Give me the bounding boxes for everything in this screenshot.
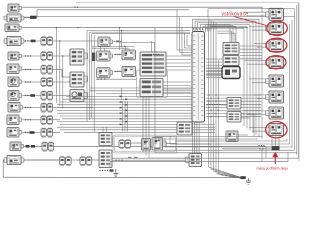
relay K2 bbox=[41, 52, 53, 61]
red arrow to X1 bbox=[272, 152, 278, 165]
corner wires above C1 bbox=[120, 41, 155, 52]
block pair RB5 bbox=[227, 98, 241, 110]
module M2 bbox=[70, 90, 88, 102]
wire y79 with dots bbox=[96, 79, 137, 80]
module M4 bbox=[99, 150, 112, 168]
module M0 bbox=[70, 49, 88, 65]
module M3 bbox=[99, 133, 112, 146]
wire net at y9.8 bbox=[37, 9, 189, 11]
wire from K6 bbox=[53, 119, 60, 121]
routing loop 5 bbox=[175, 139, 287, 141]
drops to modules row bbox=[120, 28, 122, 50]
wires left of RB5 bbox=[206, 101, 224, 105]
bottom converge verticals bbox=[262, 147, 266, 162]
wire net at y16.5 bbox=[37, 16, 295, 18]
sensor block B7 bbox=[8, 77, 22, 87]
wire from B11 bbox=[22, 131, 41, 134]
wire row y160 segments bbox=[24, 159, 99, 161]
injector INJ2 bbox=[266, 40, 284, 52]
module M5 bbox=[98, 37, 113, 47]
sensor block B8 bbox=[8, 91, 22, 101]
verticals below C2 bbox=[143, 97, 149, 159]
wire M4 to D2 bbox=[112, 157, 185, 161]
module A1 bbox=[97, 51, 113, 61]
dots above ECU bbox=[193, 28, 203, 29]
wire from B3 bbox=[22, 27, 248, 28]
routing loop 4 bbox=[170, 24, 290, 144]
connector block B4 bbox=[4, 37, 24, 46]
extra top bundle lines bbox=[206, 25, 237, 43]
relay box outline bbox=[113, 135, 177, 153]
routing loop bottom lines bbox=[110, 4, 299, 168]
wire from K3b to M1 bbox=[53, 81, 70, 83]
wire from B2 with inline fuse F1 bbox=[24, 10, 37, 19]
ECU top exit wires bbox=[193, 19, 260, 31]
horizontal wire bus left of ECU bbox=[57, 88, 215, 132]
wire from B6 bbox=[22, 69, 41, 70]
second wire into X1 bbox=[222, 148, 271, 150]
relay K7 bbox=[41, 128, 53, 137]
connector block B5 bbox=[8, 52, 22, 60]
wire K1 to module M5 bbox=[53, 40, 98, 42]
relay K4 bbox=[41, 91, 53, 100]
corner wire y8.6 bbox=[208, 9, 295, 18]
block E2 inside box bbox=[152, 138, 163, 151]
feed wires above modules bbox=[92, 46, 135, 51]
wire from K2 bbox=[53, 55, 70, 57]
relay K1 bbox=[41, 37, 53, 46]
sensor block B9 bbox=[8, 103, 23, 113]
wires right of RB column bbox=[240, 46, 262, 59]
circle icon in B8 bbox=[11, 92, 15, 96]
feeder staircase verticals bbox=[244, 14, 262, 139]
relay pair K9 bbox=[60, 156, 72, 165]
long vertical from B3 net bbox=[56, 27, 57, 103]
wires C1 to ECU bbox=[166, 56, 191, 70]
wire from B13 right bbox=[24, 159, 84, 161]
red ellipse around S1 bbox=[266, 122, 287, 138]
wire from B1 bbox=[22, 7, 265, 13]
dots right of C1 bbox=[150, 54, 159, 55]
connector D2 bbox=[185, 154, 201, 167]
wires RB6 RB7 to feeders bbox=[221, 101, 254, 137]
long vertical from K1 net bbox=[59, 40, 60, 106]
corner wires to RB2 top bbox=[217, 31, 235, 43]
wires out of relay box bbox=[131, 141, 215, 144]
wires C2 to ECU bbox=[163, 82, 191, 93]
wire from K7 bbox=[53, 132, 60, 134]
circle icon in B7 bbox=[11, 79, 15, 83]
connector block B2 bbox=[4, 14, 24, 22]
outer routing loop bbox=[160, 9, 295, 151]
injector INJ1 bbox=[266, 23, 284, 35]
wire from K4 to module M2 bbox=[53, 95, 70, 97]
node dot on B13 drop bbox=[2, 159, 5, 161]
wire from M5 bbox=[114, 41, 123, 43]
ground symbol G1 bbox=[113, 169, 118, 177]
red leader line to INJ1 bbox=[234, 17, 267, 26]
wire from K5 bbox=[53, 107, 93, 109]
outline box around C2 bbox=[137, 70, 168, 98]
injector INJ3 bbox=[266, 57, 284, 69]
wire from B4 with dots bbox=[24, 40, 41, 43]
routing loop 2 bbox=[155, 5, 297, 155]
module B1 bbox=[122, 50, 135, 60]
component N2 bbox=[266, 91, 284, 103]
page border top bbox=[76, 2, 299, 162]
bus crossing verticals bbox=[123, 101, 128, 132]
connector block B12 bbox=[10, 142, 24, 151]
oil pressure sensor S1 bbox=[266, 124, 284, 136]
ground symbol G3 bbox=[246, 178, 251, 184]
connector block B3 bbox=[5, 24, 22, 32]
wire from B7 bbox=[22, 81, 41, 82]
block E1 inside box bbox=[142, 139, 151, 151]
red ellipse around INJ2 bbox=[266, 38, 287, 52]
bus corner horizontals bbox=[87, 30, 190, 34]
diagonal wires to mass junction X2 bbox=[209, 167, 241, 178]
wires from S1 down to X1 bbox=[272, 136, 279, 146]
relay K3 bbox=[41, 65, 53, 74]
oil-filter mass junction X1 bbox=[266, 146, 280, 151]
verticals right of ECU bbox=[209, 19, 219, 175]
dark component on bus bbox=[92, 53, 95, 62]
connector block B11 bbox=[7, 128, 22, 138]
tab of E2 bbox=[163, 141, 167, 147]
wire A1 to B1 bbox=[114, 54, 122, 55]
long wire y136 bbox=[155, 136, 262, 138]
ECU right lower exit wires bbox=[206, 95, 261, 117]
block pair RB6 bbox=[227, 112, 241, 123]
routing loop 3 bbox=[165, 20, 292, 147]
connector D1 bbox=[177, 122, 192, 135]
injector feed stubs bbox=[244, 12, 266, 131]
red label masa po filtrem oleju bbox=[257, 166, 288, 170]
connector RB2 bbox=[223, 43, 239, 55]
relay K8 bbox=[42, 142, 54, 151]
red ellipse around INJ3 bbox=[266, 56, 286, 69]
connector block B6 bbox=[7, 64, 22, 74]
relay module R1 bbox=[266, 8, 284, 20]
relay pair K10 bbox=[80, 156, 92, 165]
dots below M4 bbox=[99, 169, 113, 171]
connector C1 bbox=[140, 52, 166, 76]
long wire y139 bbox=[158, 138, 258, 140]
wire above M3 bbox=[103, 127, 107, 132]
wire from K3 bbox=[53, 70, 70, 78]
ECU left drop verticals bbox=[177, 10, 192, 55]
tick marks right of ECU bbox=[208, 94, 218, 117]
wire from B5 bbox=[22, 55, 41, 56]
ECU right exit wires bbox=[206, 59, 222, 78]
dots along diagonals bbox=[221, 174, 230, 177]
wire A2 to B2 bbox=[114, 71, 122, 72]
red label vstrikovace bbox=[222, 11, 249, 17]
component N1 bbox=[266, 75, 284, 87]
wire from B12 with fuse F2 bbox=[24, 145, 42, 148]
wire from B13 down-left and along bottom bbox=[3, 160, 240, 178]
connector block B1 bbox=[8, 4, 22, 12]
wire from B9 bbox=[23, 107, 41, 108]
component N3 bbox=[266, 107, 284, 119]
wire from B8 bbox=[22, 94, 41, 97]
relay pair K11 inside box bbox=[119, 140, 131, 149]
ECU bottom pin drops bbox=[193, 122, 200, 154]
ECU connector J-ECU bbox=[192, 32, 205, 123]
module M1 bbox=[70, 72, 88, 87]
junction mass point X2 bbox=[233, 176, 246, 180]
svg-text:masa po filtrem oleju: masa po filtrem oleju bbox=[257, 166, 288, 170]
wire from K8 to oil-filter mass point bbox=[54, 145, 266, 147]
vertical bus lines bbox=[87, 31, 94, 133]
connector C2 bbox=[140, 79, 163, 97]
wire from B10 bbox=[22, 119, 41, 120]
ignition module RB4 bbox=[222, 67, 240, 79]
block RB7 bbox=[226, 131, 238, 142]
relay K5 bbox=[41, 103, 53, 112]
junction dash marks on bus bbox=[120, 96, 128, 125]
relay K3b bbox=[41, 78, 53, 87]
wire from D2 bbox=[151, 157, 186, 159]
connector RB3 bbox=[223, 56, 239, 66]
wires ECU to RB4 bbox=[206, 68, 222, 76]
module A2 bbox=[97, 68, 113, 78]
module B2 bbox=[122, 66, 135, 76]
long vertical from K2 net bbox=[62, 55, 63, 108]
red ellipse around INJ1 bbox=[267, 21, 288, 35]
dotted wires into X1 bbox=[258, 145, 264, 149]
drop at x121.5 bbox=[121, 88, 123, 100]
connector block B13 bbox=[4, 156, 24, 165]
connector block B10 bbox=[7, 115, 22, 125]
relay K6 bbox=[41, 116, 53, 125]
